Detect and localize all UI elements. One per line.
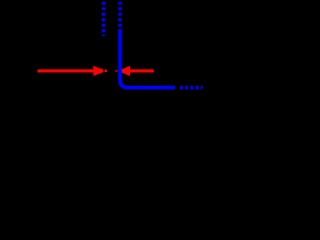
left red arrow (pointing right)	[38, 66, 104, 76]
dashed horizontal blue line (right extension)	[180, 86, 203, 90]
red dot marker	[105, 70, 107, 73]
solid blue curve (vertical, bend, horizontal)	[120, 29, 175, 88]
dashed vertical blue line (upper extension of solid curve)	[118, 2, 122, 29]
dashed vertical blue line (left, upper extension)	[102, 2, 106, 36]
right red arrow (pointing left)	[116, 66, 154, 76]
